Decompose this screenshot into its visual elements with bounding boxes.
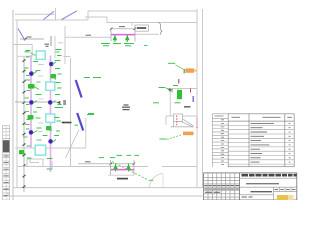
green arrow luminaire 3: [113, 164, 118, 169]
magenta cable bottom: [111, 169, 134, 171]
ladder dark header block: [3, 140, 10, 152]
blue cable stroke 2: [77, 113, 83, 131]
left wall: [16, 20, 18, 188]
interior wall vertical mid: [70, 58, 72, 167]
green mini labels / leaders left area: [22, 50, 62, 170]
magenta cable top: [111, 34, 135, 36]
dim line y102: [15, 101, 57, 103]
table qty column: [289, 123, 291, 162]
risers (magenta vertical lines): [30, 55, 32, 148]
bottom big room top edge: [17, 166, 197, 168]
heater orange bar 2: [183, 132, 194, 136]
left columns dark text rows: [204, 186, 239, 193]
green text bottom middle: [99, 157, 115, 159]
name cell text: [251, 191, 273, 193]
small room top-left: [13, 26, 111, 64]
panel box cyan 4: [35, 145, 46, 155]
corridor lines above bottom assembly: [108, 174, 134, 176]
blue cable stroke 1: [76, 80, 82, 98]
bathroom box right: [166, 89, 197, 126]
dim line 150: [20, 38, 44, 40]
yellow cells: [277, 195, 288, 200]
table header texts: [232, 116, 292, 118]
furniture bottom-left room: [27, 159, 52, 168]
green label SCHK: [159, 87, 166, 89]
green label + leader to heater1: [168, 62, 175, 64]
interior wall x86: [85, 118, 87, 148]
panel box cyan 3: [46, 114, 55, 122]
bottom wall double: [8, 188, 203, 196]
+0.000 level text: [184, 106, 191, 108]
wall stubs above room: [50, 36, 52, 46]
green dashed leader from bottom assembly: [112, 162, 148, 181]
door arc: [150, 174, 164, 188]
blue leader top-left: [18, 29, 25, 41]
right wall double: [197, 9, 203, 188]
green arrow luminaire 4: [126, 164, 131, 169]
green labels under top assembly: [101, 44, 134, 46]
designation band dark: [242, 174, 297, 177]
table row texts: [251, 123, 275, 162]
brace: [158, 22, 162, 35]
blue dash: [192, 96, 194, 102]
green label in room: [25, 51, 30, 53]
wall tick: [178, 79, 180, 84]
small box mid-left wall: [63, 100, 66, 105]
green label left of bathroom: [153, 102, 159, 104]
panel box cyan 1: [36, 51, 45, 59]
bathroom fixtures: [171, 114, 194, 127]
electrical panel green rect: [177, 90, 182, 99]
left columns grid: [204, 173, 240, 200]
green labels near blue cables: [84, 78, 101, 115]
dim line: [111, 28, 135, 30]
walls: top-left: [15, 8, 197, 34]
wall y148: [15, 147, 86, 149]
left dimension line with ticks: [23, 57, 25, 192]
blue roof leaders top-left: [44, 11, 78, 20]
stage grid: [240, 187, 297, 200]
green dim labels above: [117, 154, 140, 156]
luminaire blue dots: [29, 62, 54, 144]
green label + dashed leader to heater2: [160, 138, 167, 140]
heater orange bar 1: [185, 68, 194, 72]
red marks near fixtures: [177, 116, 197, 129]
green arrow luminaire 2: [125, 35, 130, 40]
grid line left (full height): [12, 10, 14, 200]
fan/switch green blobs: [19, 74, 56, 154]
red tick near panel: [190, 89, 192, 93]
+2.880 mark bottom: [117, 178, 128, 180]
label box PUGNP: [135, 25, 149, 31]
legend ladder strip bottom-left: [3, 126, 10, 201]
panel box cyan 2: [46, 82, 55, 90]
room number label 1k 16.3: [122, 105, 130, 110]
red dashes in wall upper: [196, 119, 198, 126]
+2.880 level mark mid: [64, 122, 72, 124]
green arrow luminaire 1: [113, 35, 118, 40]
leader to lower room: [66, 130, 80, 159]
project name row: [246, 183, 279, 185]
